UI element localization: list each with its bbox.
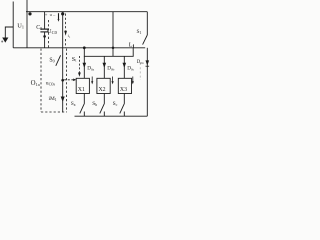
svg-text:D0b: D0b	[107, 66, 114, 72]
svg-text:X1: X1	[78, 87, 85, 93]
wire bus under mid rail	[84, 48, 133, 57]
switch Sa	[80, 94, 85, 117]
node dot on top rail left	[28, 12, 31, 15]
svg-text:i₁: i₁	[68, 33, 71, 38]
diode drop b	[103, 56, 107, 78]
wire left outer vertical	[12, 2, 14, 48]
svg-text:uC0s: uC0s	[46, 80, 56, 86]
svg-text:C0: C0	[36, 25, 42, 31]
switch S1 blade	[143, 35, 148, 45]
svg-text:X2: X2	[99, 87, 106, 93]
tick under L	[133, 44, 135, 47]
dashed cell edge lower segment	[65, 39, 67, 48]
wire right rail upper	[146, 12, 148, 35]
dashed voltage line at C0	[48, 20, 50, 48]
node dot at mid rail x113	[112, 47, 115, 50]
capacitor C0	[40, 12, 48, 48]
svg-text:S1: S1	[137, 29, 142, 35]
svg-text:+: +	[45, 13, 48, 18]
svg-text:X3: X3	[120, 87, 127, 93]
switch Sc	[120, 94, 125, 117]
wire right upper vertical	[112, 12, 114, 57]
diode D0x on right rail	[146, 60, 150, 66]
node dot below C0	[43, 35, 46, 38]
dashed box cell upper right edge	[65, 14, 67, 31]
svg-text:D0a: D0a	[87, 66, 94, 72]
svg-text:Sb: Sb	[92, 101, 97, 107]
dashed voltage arrow head	[64, 31, 67, 36]
wire mid rail	[13, 47, 145, 49]
svg-text:Sa: Sa	[71, 101, 76, 107]
dashed control arrow down	[78, 56, 81, 77]
wire right rail lower	[146, 48, 148, 116]
svg-text:Sc: Sc	[113, 101, 118, 107]
faint dashed stub right of D0x	[139, 63, 141, 80]
box X2	[97, 78, 110, 93]
node dot mid branch	[61, 79, 64, 82]
svg-text:S0: S0	[49, 58, 54, 64]
box X1	[76, 78, 89, 93]
switch S0 blade	[56, 55, 61, 66]
wire top rail	[26, 11, 147, 13]
switch Sb	[100, 94, 105, 117]
dashed arrow right from node	[64, 79, 76, 82]
svg-text:U1: U1	[17, 23, 24, 30]
dashed box cell left edge	[40, 49, 42, 112]
diode drop a	[83, 56, 87, 78]
side mark X1	[91, 77, 93, 85]
dashed box cell lower right edge	[66, 49, 68, 112]
dashed box cell bottom edge	[41, 111, 67, 113]
wire S0 branch vertical	[62, 12, 64, 113]
svg-text:D0c: D0c	[127, 66, 134, 72]
diode drop c	[123, 56, 127, 78]
side mark X3	[132, 77, 134, 85]
wire left inner vertical	[26, 0, 28, 48]
box X3	[118, 78, 131, 93]
svg-text:u –: u –	[50, 12, 56, 17]
current arrow M1 on branch	[61, 97, 65, 103]
current arrow i1 head	[58, 19, 60, 22]
svg-text:O1a: O1a	[31, 80, 40, 87]
side mark X2	[112, 77, 114, 85]
ground	[2, 27, 13, 43]
current arrow i1 tick	[58, 13, 60, 19]
svg-text:L: L	[129, 41, 133, 48]
node dot bus left	[83, 46, 86, 49]
node dot on top rail at S0 branch	[61, 12, 64, 15]
speckle mark left edge	[1, 41, 3, 43]
wire bottom rail	[75, 115, 148, 117]
